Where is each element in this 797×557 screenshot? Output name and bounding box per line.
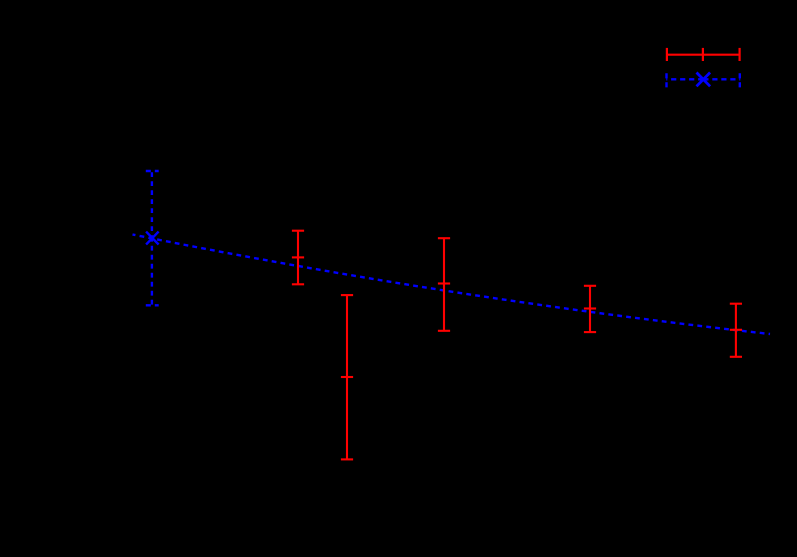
blue data point error bar (dashed) bbox=[146, 171, 159, 305]
legend blue sample bbox=[666, 73, 740, 87]
legend blue X marker bbox=[697, 73, 711, 87]
red error bar 5 bbox=[730, 304, 742, 357]
red error bar 1 bbox=[292, 231, 304, 285]
legend red sample bbox=[667, 48, 740, 61]
blue fit curve (dashed) bbox=[133, 235, 771, 335]
red error bar 2 bbox=[341, 295, 353, 459]
red error bar 3 bbox=[438, 238, 450, 331]
blue X marker data point bbox=[146, 232, 159, 245]
red error bar 4 bbox=[584, 286, 596, 332]
